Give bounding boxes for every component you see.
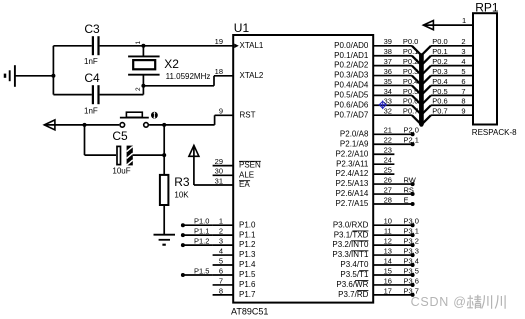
- wire C4 left: [53, 94, 91, 96]
- node P0.6 (U1 side): [403, 97, 418, 106]
- svg-text:37: 37: [384, 57, 392, 66]
- svg-text:P0.2/AD2: P0.2/AD2: [334, 61, 369, 70]
- C3 value label 1nF: [84, 57, 98, 66]
- svg-text:X2: X2: [164, 57, 179, 71]
- pin P3.3/INT1 (13): [332, 246, 392, 259]
- wire C3 to XTAL1: [100, 45, 234, 47]
- svg-text:EA: EA: [239, 180, 250, 189]
- RP1 pin 3 number: [461, 47, 465, 56]
- svg-text:1nF: 1nF: [84, 107, 98, 116]
- wire C5 branch down: [85, 125, 117, 155]
- junction X2/XTAL2: [141, 84, 145, 88]
- node P0.0 (RP1 side): [432, 37, 447, 46]
- node P0.2 (U1 side): [403, 57, 418, 66]
- svg-text:P1.2: P1.2: [239, 240, 256, 249]
- svg-text:CSDN @: CSDN @: [411, 295, 467, 309]
- svg-text:P3.5/T1: P3.5/T1: [340, 270, 369, 279]
- svg-text:R3: R3: [174, 175, 190, 189]
- svg-text:4: 4: [219, 246, 223, 255]
- pin P2.4/A12 (25): [335, 166, 391, 179]
- pin P0.4/AD4 (35): [334, 77, 392, 90]
- X2 reference label: [164, 57, 179, 71]
- pin P2.7/A15 (28): [335, 195, 391, 208]
- svg-text:16: 16: [384, 276, 392, 285]
- RP1 pin 8 number: [461, 97, 465, 106]
- wire P2.3 stub (pin 24): [373, 163, 394, 165]
- RP1 pin 5 number: [461, 67, 465, 76]
- pin P3.7/RD (17): [338, 286, 392, 299]
- RP1 reference label: [475, 0, 499, 14]
- junction bus P0.1: [419, 63, 423, 67]
- svg-text:P1.4: P1.4: [239, 260, 256, 269]
- wire P0.1 U1 to bus: [373, 56, 421, 65]
- wire RS net (pin 27): [373, 193, 412, 195]
- svg-text:C5: C5: [112, 129, 128, 143]
- node P0.7 (RP1 side): [432, 107, 447, 116]
- svg-text:P3.6: P3.6: [404, 276, 419, 285]
- pin P2.1/A9 (22): [340, 136, 392, 149]
- node P3.0: [404, 217, 419, 228]
- svg-text:P0.6: P0.6: [432, 97, 447, 106]
- svg-text:RS: RS: [404, 185, 414, 194]
- X2 pin 2 wire: [142, 75, 144, 95]
- svg-text:C4: C4: [84, 71, 100, 85]
- svg-text:P0.0: P0.0: [432, 37, 447, 46]
- origin marker (blue): [378, 101, 387, 110]
- wire P0.0 U1 to bus: [373, 46, 421, 56]
- capacitor C3: [93, 36, 99, 55]
- wire P2.1 net (pin 22): [373, 143, 412, 145]
- wire P3.1 net (pin 11): [373, 234, 412, 236]
- svg-text:P3.2: P3.2: [404, 237, 419, 246]
- svg-text:18: 18: [215, 67, 223, 76]
- svg-text:11: 11: [384, 227, 392, 236]
- wire P0.2 U1 to bus: [373, 66, 421, 76]
- svg-text:XTAL2: XTAL2: [240, 71, 264, 80]
- svg-text:35: 35: [384, 77, 392, 86]
- svg-text:9: 9: [461, 107, 465, 116]
- svg-text:P3.0: P3.0: [404, 217, 419, 226]
- pin P1.4 (5): [213, 256, 256, 269]
- wire C4 to crystal pin 2: [100, 94, 144, 96]
- svg-text:P0.2: P0.2: [432, 57, 447, 66]
- svg-text:P2.0: P2.0: [404, 126, 419, 135]
- pin P2.0/A8 (21): [340, 126, 392, 139]
- svg-text:P3.7: P3.7: [404, 286, 419, 295]
- svg-text:P0.1/AD1: P0.1/AD1: [334, 51, 369, 60]
- svg-text:23: 23: [384, 146, 392, 155]
- svg-text:P2.7/A15: P2.7/A15: [335, 199, 368, 208]
- junction bus P0.0: [419, 53, 423, 57]
- wire P0.3 U1 to bus: [373, 76, 421, 86]
- svg-text:2: 2: [461, 37, 465, 46]
- resistor pack RP1 body: [473, 13, 497, 124]
- wire RP1 pin 1: [423, 24, 473, 26]
- svg-text:P1.5: P1.5: [194, 266, 209, 275]
- node P0.6 (RP1 side): [432, 97, 447, 106]
- svg-text:4: 4: [461, 57, 465, 66]
- svg-text:25: 25: [384, 166, 392, 175]
- node P0.3 (U1 side): [403, 67, 418, 76]
- ground (below R3): [154, 235, 176, 245]
- node RS: [404, 185, 415, 196]
- wire P3.7 net (pin 17): [373, 294, 412, 296]
- svg-text:6: 6: [461, 77, 465, 86]
- svg-text:P1.2: P1.2: [194, 237, 209, 246]
- node P0.3 (RP1 side): [432, 67, 447, 76]
- svg-text:P0.1: P0.1: [432, 47, 447, 56]
- pin P2.2/A10 (23): [335, 146, 391, 159]
- pin P0.6/AD6 (33): [334, 97, 392, 110]
- svg-text:15: 15: [384, 266, 392, 275]
- wire P0.6 bus to RP1: [421, 105, 473, 115]
- svg-text:P2.6/A14: P2.6/A14: [335, 189, 368, 198]
- svg-text:P0.7/AD7: P0.7/AD7: [334, 110, 369, 119]
- pin XTAL2 (18): [215, 67, 264, 80]
- wire R3 to ground: [163, 205, 165, 235]
- C5 reference label: [112, 129, 128, 143]
- svg-text:2: 2: [135, 87, 142, 91]
- svg-text:17: 17: [384, 286, 392, 295]
- pin XTAL1 (19): [215, 37, 264, 50]
- svg-text:P2.4/A12: P2.4/A12: [335, 169, 368, 178]
- wire P3.6 net (pin 16): [373, 284, 412, 286]
- node P3.6: [404, 276, 419, 287]
- svg-text:1: 1: [219, 217, 223, 226]
- pin P1.2 (3): [213, 237, 256, 250]
- wire C3 left: [53, 45, 91, 47]
- svg-text:P1.5: P1.5: [239, 270, 256, 279]
- pin P1.3 (4): [213, 246, 256, 259]
- svg-text:RP1: RP1: [475, 0, 499, 14]
- C3 reference label: [84, 22, 100, 36]
- wire P3.3 net (pin 13): [373, 254, 412, 256]
- wire P0.5 bus to RP1: [421, 95, 473, 105]
- svg-text:3: 3: [461, 47, 465, 56]
- wire P0.7 bus to RP1: [421, 115, 473, 125]
- svg-text:P0.5/AD5: P0.5/AD5: [334, 90, 369, 99]
- svg-text:31: 31: [215, 176, 223, 185]
- RP1 value label RESPACK-8: [472, 128, 517, 137]
- svg-text:8: 8: [219, 286, 223, 295]
- wire P0.2 bus to RP1: [421, 66, 473, 76]
- junction bus P0.3: [419, 83, 423, 87]
- svg-text:38: 38: [384, 47, 392, 56]
- svg-text:P3.6/WR: P3.6/WR: [336, 280, 368, 289]
- svg-text:27: 27: [384, 185, 392, 194]
- svg-text:P0.4/AD4: P0.4/AD4: [334, 81, 369, 90]
- svg-text:P3.3/INT1: P3.3/INT1: [332, 250, 369, 259]
- wire P0.5 U1 to bus: [373, 95, 421, 105]
- svg-text:P2.2/A10: P2.2/A10: [335, 149, 368, 158]
- wire P0.4 bus to RP1: [421, 85, 473, 95]
- svg-text:C3: C3: [84, 22, 100, 36]
- wire P2.0 net (pin 21): [373, 133, 412, 135]
- wire P1.1 net: [183, 234, 213, 236]
- capacitor C4: [93, 85, 99, 104]
- pin P3.0/RXD (10): [333, 217, 392, 230]
- svg-text:P2.1/A9: P2.1/A9: [340, 139, 369, 148]
- svg-text:7: 7: [219, 276, 223, 285]
- pin P0.1/AD1 (38): [334, 47, 392, 60]
- pin P1.1 (2): [213, 227, 256, 240]
- svg-text:P3.4/T0: P3.4/T0: [340, 260, 369, 269]
- RP1 pin 7 number: [461, 87, 465, 96]
- power terminal (left arrow, RP1 pin 1): [423, 21, 433, 30]
- svg-text:P3.2/INT0: P3.2/INT0: [332, 240, 369, 249]
- node P1.1: [181, 227, 210, 238]
- pin P0.7/AD7 (32): [334, 107, 392, 120]
- wire P2.2 stub (pin 23): [373, 153, 394, 155]
- crystal X2: [128, 56, 160, 74]
- svg-text:P2.1: P2.1: [404, 136, 419, 145]
- bus vertical junction column: [419, 54, 424, 125]
- svg-text:P0.6/AD6: P0.6/AD6: [334, 100, 369, 109]
- svg-text:32: 32: [384, 107, 392, 116]
- node P3.5: [404, 266, 419, 277]
- node E: [404, 195, 415, 206]
- pin P1.7 (8): [213, 286, 256, 299]
- svg-text:P0.4: P0.4: [432, 77, 447, 86]
- svg-text:21: 21: [384, 126, 392, 135]
- pin P1.0 (1): [213, 217, 256, 230]
- pin P3.2/INT0 (12): [332, 237, 392, 250]
- svg-text:P0.0/AD0: P0.0/AD0: [334, 41, 369, 50]
- wire P3.4 net (pin 14): [373, 264, 412, 266]
- wire P0.4 U1 to bus: [373, 85, 421, 95]
- node P0.5 (RP1 side): [432, 87, 447, 96]
- svg-text:1nF: 1nF: [84, 57, 98, 66]
- wire P0.7 U1 to bus: [373, 115, 421, 125]
- svg-text:7: 7: [461, 87, 465, 96]
- watermark CSDN @jingchuanchuan: [411, 295, 506, 309]
- svg-text:3: 3: [219, 237, 223, 246]
- junction reset/R3: [162, 123, 166, 127]
- svg-text:RW: RW: [404, 175, 417, 184]
- svg-text:P1.6: P1.6: [239, 280, 256, 289]
- svg-text:P3.5: P3.5: [404, 266, 419, 275]
- wire button to RST: [149, 115, 233, 125]
- R3 reference label: [174, 175, 190, 189]
- svg-text:34: 34: [384, 87, 392, 96]
- C4 reference label: [84, 71, 100, 85]
- node P1.2: [181, 237, 210, 248]
- RP1 pin 6 number: [461, 77, 465, 86]
- svg-text:P3.0/RXD: P3.0/RXD: [333, 220, 369, 229]
- svg-text:19: 19: [215, 37, 223, 46]
- pin ALE (30): [213, 167, 255, 180]
- node P3.7: [404, 286, 419, 297]
- X2 value label 11.0592MHz: [166, 72, 211, 81]
- pin P2.5/A13 (26): [335, 175, 391, 188]
- node RW: [404, 175, 417, 186]
- node P3.1: [404, 227, 419, 238]
- pin P3.5/T1 (15): [340, 266, 392, 279]
- junction ground/C3/C4: [51, 74, 55, 78]
- wire P1.2 net: [183, 244, 213, 246]
- svg-text:1: 1: [135, 41, 142, 45]
- wire P1.5 net: [183, 274, 213, 276]
- pin P0.3/AD3 (36): [334, 67, 392, 80]
- svg-text:9: 9: [219, 107, 223, 116]
- junction reset/C5: [83, 123, 87, 127]
- pin PSEN (29): [213, 157, 261, 170]
- svg-text:22: 22: [384, 136, 392, 145]
- IC U1 AT89C51 body: [233, 35, 373, 303]
- pin P0.0/AD0 (39): [334, 37, 392, 50]
- pin RST (9): [219, 107, 256, 120]
- junction bus P0.7: [419, 123, 423, 127]
- pin P1.5 (6): [213, 266, 256, 279]
- svg-text:P0.7: P0.7: [432, 107, 447, 116]
- X2 pin 1 number: [135, 41, 142, 45]
- svg-text:P0.3/AD3: P0.3/AD3: [334, 71, 369, 80]
- RP1 pin 9 number: [461, 107, 465, 116]
- node P1.5: [181, 266, 210, 277]
- svg-text:6: 6: [219, 266, 223, 275]
- node P3.3: [404, 246, 419, 257]
- svg-text:2: 2: [219, 227, 223, 236]
- RP1 pin 2 number: [461, 37, 465, 46]
- pin P1.6 (7): [213, 276, 256, 289]
- svg-text:PSEN: PSEN: [239, 161, 261, 170]
- pin P3.4/T0 (14): [340, 256, 392, 269]
- wire P0.1 bus to RP1: [421, 56, 473, 65]
- svg-text:U1: U1: [234, 21, 250, 35]
- RP1 pin 1 number: [462, 16, 466, 25]
- node P3.4: [404, 256, 419, 267]
- junction bus P0.6: [419, 113, 423, 117]
- svg-text:30: 30: [215, 167, 223, 176]
- wire R3 branch vertical: [163, 125, 165, 175]
- pin P0.2/AD2 (37): [334, 57, 392, 70]
- wire power arrow to button: [44, 124, 119, 126]
- ground (left, at C3/C4 branch): [5, 65, 15, 87]
- wire E net (pin 28): [373, 203, 412, 205]
- svg-text:P0.5: P0.5: [432, 87, 447, 96]
- RP1 pin 4 number: [461, 57, 465, 66]
- wire RW net (pin 26): [373, 183, 412, 185]
- power terminal (left arrow, reset net): [44, 120, 55, 130]
- svg-text:P1.1: P1.1: [239, 230, 256, 239]
- pin EA (31): [215, 176, 251, 189]
- svg-text:P3.1: P3.1: [404, 227, 419, 236]
- wire branch vertical C3-C4: [52, 46, 54, 95]
- svg-text:RST: RST: [240, 110, 256, 119]
- wire P0.6 U1 to bus: [373, 105, 421, 115]
- power terminal (up arrow, EA net): [189, 145, 199, 156]
- svg-text:P0.0: P0.0: [403, 37, 418, 46]
- svg-text:P1.0: P1.0: [239, 220, 256, 229]
- junction bus P0.2: [419, 73, 423, 77]
- svg-text:36: 36: [384, 67, 392, 76]
- svg-text:P1.0: P1.0: [194, 217, 209, 226]
- node P1.0: [181, 217, 210, 228]
- junction bus P0.5: [419, 103, 423, 107]
- node P3.2: [404, 237, 419, 248]
- pin P2.6/A14 (27): [335, 185, 391, 198]
- svg-text:39: 39: [384, 37, 392, 46]
- wire P0.3 bus to RP1: [421, 76, 473, 86]
- pin P3.6/WR (16): [336, 276, 392, 289]
- svg-text:1: 1: [462, 16, 466, 25]
- C5 value label 10uF: [112, 167, 130, 176]
- U1 value label AT89C51: [231, 306, 268, 316]
- capacitor C5 (polarized): [117, 146, 133, 166]
- node P0.7 (U1 side): [403, 107, 418, 116]
- U1 reference label: [234, 21, 250, 35]
- svg-text:XTAL1: XTAL1: [240, 41, 264, 50]
- wire P3.5 net (pin 15): [373, 274, 412, 276]
- X2 pin 2 number: [135, 87, 142, 91]
- svg-text:E: E: [404, 195, 409, 204]
- pin P2.3/A11 (24): [336, 156, 392, 169]
- svg-text:P1.7: P1.7: [239, 290, 256, 299]
- svg-text:11.0592MHz: 11.0592MHz: [166, 72, 211, 81]
- wire P1.0 net: [183, 224, 213, 226]
- wire C5 to R3 branch: [133, 154, 164, 156]
- wire XTAL2 net: [143, 76, 233, 86]
- svg-text:29: 29: [215, 157, 223, 166]
- node P2.0: [404, 126, 419, 137]
- wire ground to node: [15, 75, 54, 77]
- pin P3.1/TXD (11): [334, 227, 392, 240]
- X2 pin 1 wire: [142, 46, 144, 57]
- node P0.5 (U1 side): [403, 87, 418, 96]
- wire P3.0 net (pin 10): [373, 224, 412, 226]
- wire EA net: [194, 145, 233, 185]
- node P0.1 (RP1 side): [432, 47, 447, 56]
- wire P2.4 stub (pin 25): [373, 173, 394, 175]
- svg-text:P3.3: P3.3: [404, 246, 419, 255]
- svg-text:P2.3/A11: P2.3/A11: [336, 159, 369, 168]
- node P0.2 (RP1 side): [432, 57, 447, 66]
- svg-text:10uF: 10uF: [112, 167, 130, 176]
- svg-text:10K: 10K: [174, 190, 189, 199]
- svg-text:5: 5: [219, 256, 223, 265]
- push button (reset): [120, 112, 149, 127]
- R3 value label 10K: [174, 190, 189, 199]
- node P0.4 (RP1 side): [432, 77, 447, 86]
- junction X2/XTAL1: [141, 44, 145, 48]
- svg-text:10: 10: [384, 217, 392, 226]
- junction C5/R3: [162, 153, 166, 157]
- svg-text:14: 14: [384, 256, 392, 265]
- svg-text:P3.7/RD: P3.7/RD: [338, 290, 368, 299]
- pin P0.5/AD5 (34): [334, 87, 392, 100]
- node P0.4 (U1 side): [403, 77, 418, 86]
- svg-text:ALE: ALE: [239, 170, 254, 179]
- svg-text:P1.1: P1.1: [194, 227, 209, 236]
- svg-text:26: 26: [384, 175, 392, 184]
- svg-text:P1.3: P1.3: [239, 250, 256, 259]
- node P0.1 (U1 side): [403, 47, 418, 56]
- button actuation marker: [151, 112, 158, 119]
- svg-text:P0.3: P0.3: [432, 67, 447, 76]
- svg-text:RESPACK-8: RESPACK-8: [472, 128, 517, 137]
- svg-text:P2.5/A13: P2.5/A13: [335, 179, 368, 188]
- resistor R3: [160, 175, 169, 205]
- svg-text:P3.1/TXD: P3.1/TXD: [334, 230, 369, 239]
- wire P3.2 net (pin 12): [373, 244, 412, 246]
- svg-text:12: 12: [384, 237, 392, 246]
- junction bus P0.4: [419, 93, 423, 97]
- node P0.0 (U1 side): [403, 37, 418, 46]
- svg-text:5: 5: [461, 67, 465, 76]
- svg-text:28: 28: [384, 195, 392, 204]
- C4 value label 1nF: [84, 107, 98, 116]
- svg-text:P3.4: P3.4: [404, 256, 419, 265]
